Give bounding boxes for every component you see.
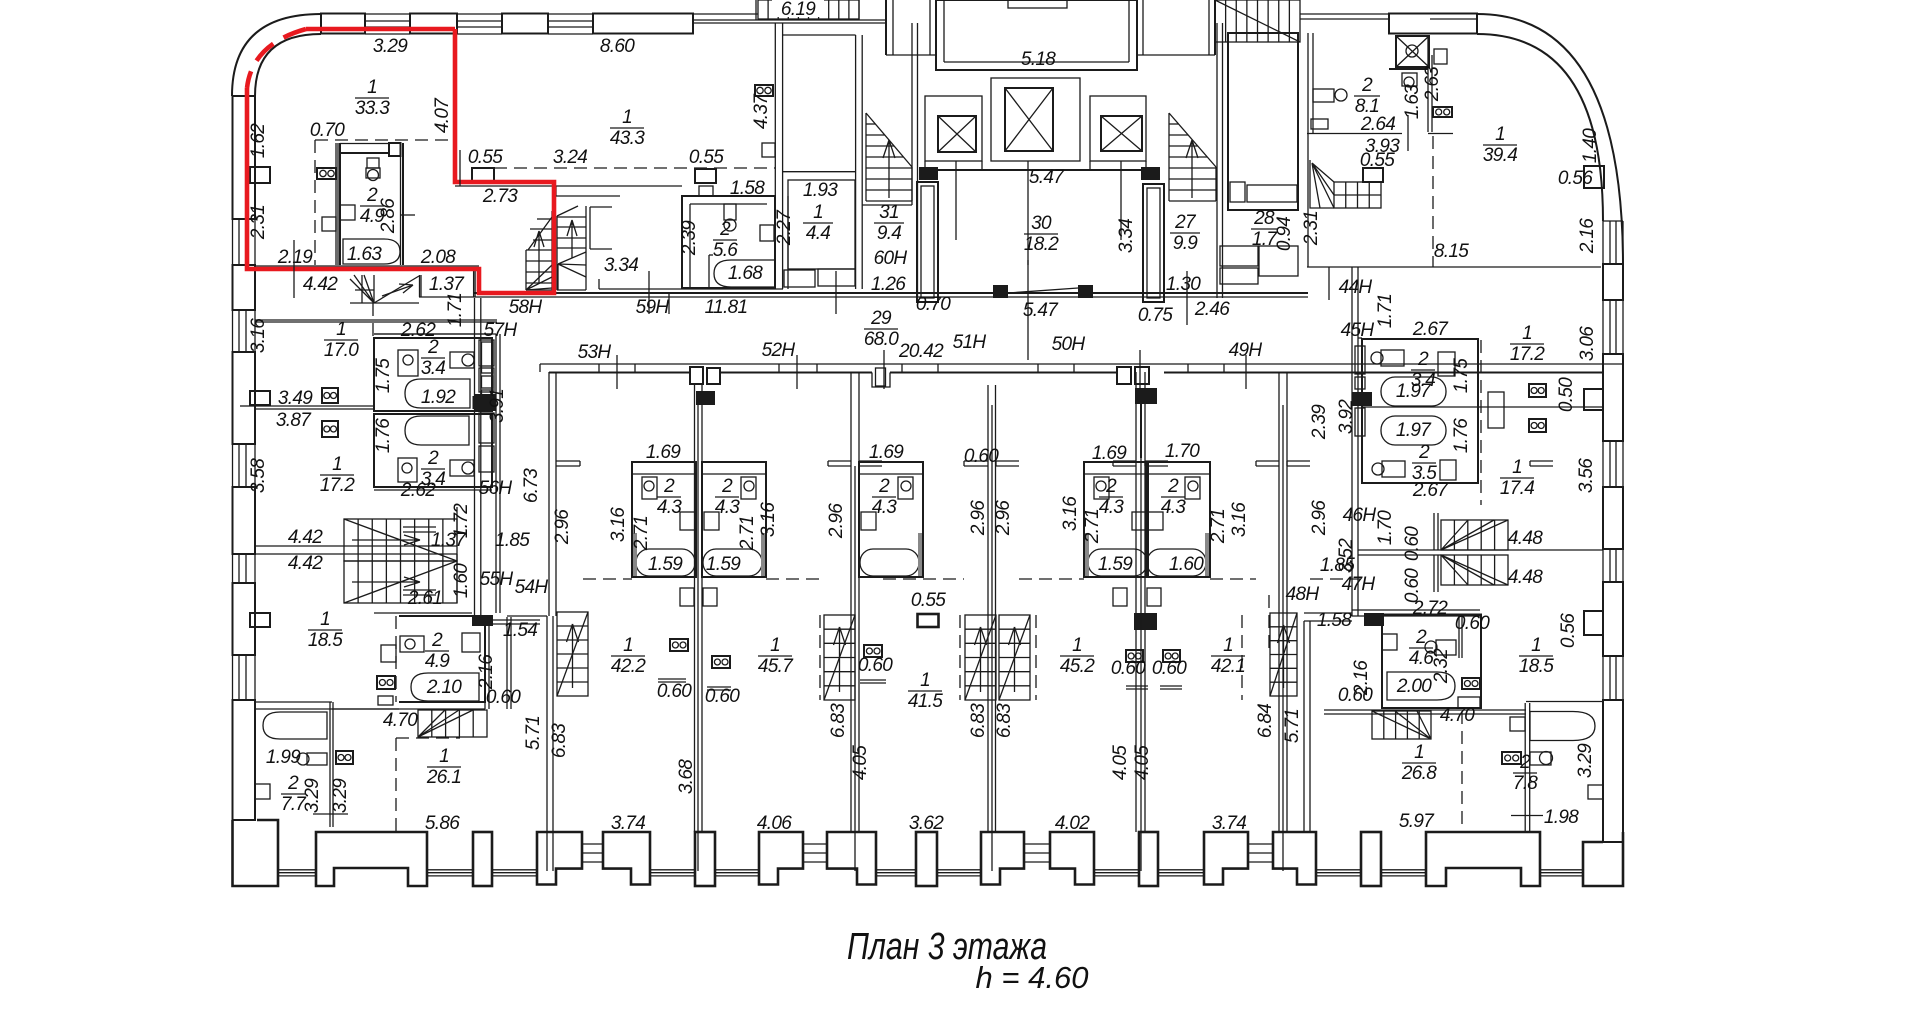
bottom square pier (1361, 832, 1381, 886)
svg-text:3.34: 3.34 (1116, 219, 1137, 253)
bath 7.7 wc (307, 753, 327, 765)
bottom pilaster pair with steps (981, 832, 1024, 885)
stove pairs mid (670, 639, 688, 651)
svg-text:3.58: 3.58 (248, 458, 269, 493)
pod 3.4 lower walls (374, 414, 492, 487)
svg-text:1: 1 (320, 609, 330, 630)
top wall thin section right (1300, 13, 1390, 15)
svg-text:42.1: 42.1 (1211, 656, 1245, 677)
left wall pier (233, 487, 256, 554)
svg-text:48H: 48H (1286, 584, 1320, 605)
top wall thin section (693, 13, 758, 15)
svg-text:0.60: 0.60 (1338, 685, 1373, 706)
stair unit 42.2 (557, 612, 588, 696)
wall 39.4 south (1307, 266, 1601, 268)
svg-text:0.70: 0.70 (916, 294, 951, 315)
outer wall top-right arc (1477, 14, 1623, 266)
red dashed arc (247, 29, 306, 88)
svg-text:0.55: 0.55 (911, 590, 946, 611)
svg-text:6.84: 6.84 (1255, 704, 1276, 738)
left core stair treads (866, 113, 912, 201)
room label 1/26.1 (426, 746, 461, 788)
svg-text:3.74: 3.74 (611, 813, 645, 834)
wall stubs 2.96 row (556, 460, 580, 462)
bottom square pier (916, 832, 937, 886)
bottom pilaster (portico) (316, 832, 427, 886)
sink upper right block (1438, 352, 1455, 376)
top wall pier (321, 14, 365, 34)
right wall pier (1603, 354, 1623, 441)
right block west wall (1351, 298, 1353, 616)
svg-text:1.70: 1.70 (1375, 510, 1396, 545)
svg-text:3.29: 3.29 (330, 778, 351, 813)
svg-text:53H: 53H (578, 342, 612, 363)
svg-text:3.29: 3.29 (302, 778, 323, 813)
interior wall 18.5/bath (255, 701, 332, 703)
svg-text:1.37: 1.37 (431, 530, 467, 551)
room label 1/43.3 (610, 107, 645, 149)
left wall bump box (250, 613, 270, 627)
left wall window (232, 444, 234, 487)
svg-text:2: 2 (427, 448, 439, 469)
svg-text:2.96: 2.96 (826, 503, 847, 539)
room label 28/1.7 (1251, 208, 1278, 250)
svg-text:1.75: 1.75 (1451, 358, 1472, 393)
svg-text:1.30: 1.30 (1166, 274, 1201, 295)
unit wall x1141 (1135, 372, 1137, 832)
right lower apartment pod 4.6 (1382, 615, 1481, 709)
svg-text:1.76: 1.76 (373, 418, 394, 453)
svg-text:1.63: 1.63 (1402, 84, 1423, 119)
winder stair 39.4 area (1310, 160, 1381, 208)
svg-text:5.86: 5.86 (425, 813, 460, 834)
stair rail bracket 58H (590, 206, 612, 208)
svg-text:2: 2 (663, 476, 675, 497)
pod 3.4 upper walls (374, 338, 492, 411)
svg-text:2.63: 2.63 (1422, 66, 1443, 102)
dim leader 5.47 bottom (1027, 260, 1029, 330)
svg-text:1.63: 1.63 (347, 244, 382, 265)
svg-text:4.42: 4.42 (303, 274, 338, 295)
svg-text:2: 2 (1361, 75, 1373, 96)
left wall pier (233, 352, 256, 444)
right wall window (1602, 549, 1604, 582)
svg-text:0.56: 0.56 (1558, 613, 1579, 648)
svg-text:3.34: 3.34 (604, 255, 638, 276)
svg-text:59H: 59H (636, 297, 670, 318)
svg-text:33.3: 33.3 (355, 98, 390, 119)
room label 1/39.4 (1483, 124, 1517, 166)
svg-text:3.16: 3.16 (758, 502, 779, 537)
svg-text:2.62: 2.62 (400, 480, 436, 501)
alcove 1.37 walls (419, 275, 421, 297)
svg-text:1: 1 (1531, 635, 1541, 656)
svg-text:3.92: 3.92 (1336, 399, 1357, 434)
top wall pier right (1389, 14, 1477, 34)
svg-text:52H: 52H (762, 340, 796, 361)
tub 2.00 (1387, 672, 1455, 700)
wc upper right block (1381, 350, 1404, 366)
svg-text:1.76: 1.76 (1451, 418, 1472, 453)
svg-text:1.75: 1.75 (373, 358, 394, 393)
svg-text:44H: 44H (1339, 277, 1373, 298)
svg-text:2.16: 2.16 (476, 654, 497, 690)
svg-text:1.40: 1.40 (1580, 128, 1601, 163)
wall right block y338 (1358, 337, 1362, 339)
svg-text:2.67: 2.67 (1412, 319, 1449, 340)
svg-text:3.06: 3.06 (1577, 326, 1598, 361)
corridor west wall x474 (474, 298, 476, 616)
left core stair walls (855, 171, 857, 289)
svg-text:6.19: 6.19 (781, 0, 816, 20)
left wall window (232, 219, 234, 265)
right wall window (1602, 656, 1604, 700)
room label 1/4.4 (803, 202, 833, 244)
stove 33.3 (317, 168, 336, 179)
svg-text:4.3: 4.3 (1161, 497, 1186, 518)
svg-text:1: 1 (770, 635, 780, 656)
svg-text:0.60: 0.60 (964, 446, 999, 467)
stair rails 46H (1433, 513, 1435, 550)
right wall long pier (1603, 700, 1623, 842)
svg-text:18.2: 18.2 (1024, 234, 1059, 255)
svg-text:51H: 51H (953, 332, 987, 353)
svg-text:4.05: 4.05 (850, 745, 871, 780)
svg-text:0.60: 0.60 (657, 681, 692, 702)
svg-text:6.83: 6.83 (549, 723, 570, 758)
dashed wall 3.24 (494, 167, 775, 169)
wc lower right block (1382, 461, 1405, 477)
svg-text:0.60: 0.60 (1111, 658, 1146, 679)
tub 1.92 (405, 379, 470, 408)
left wall bump box (250, 167, 270, 183)
svg-text:2.32: 2.32 (1431, 648, 1452, 684)
black box at wall 1141 lower (1134, 613, 1157, 630)
stair flight left duplex 33.3 (526, 211, 552, 290)
room label 2/3.4 (421, 337, 445, 379)
svg-text:4.06: 4.06 (757, 813, 792, 834)
sinks below mid walls (680, 588, 694, 606)
left wall bump box (250, 391, 270, 405)
svg-text:2: 2 (1167, 476, 1179, 497)
entrance steps (1248, 843, 1273, 845)
wall x507 (506, 617, 508, 709)
svg-text:1: 1 (367, 77, 377, 98)
svg-text:45.7: 45.7 (758, 656, 794, 677)
wall 47H y616 (1352, 609, 1480, 611)
wall x1428 (1427, 36, 1429, 132)
svg-text:6.73: 6.73 (521, 468, 542, 503)
svg-text:17.2: 17.2 (1510, 344, 1545, 365)
left wall pier (233, 583, 256, 655)
svg-text:2.86: 2.86 (378, 198, 399, 234)
svg-text:3.4: 3.4 (421, 358, 445, 379)
elevator hall (936, 0, 1137, 70)
wall x330 (329, 702, 331, 827)
svg-text:2: 2 (878, 476, 890, 497)
svg-text:0.50: 0.50 (1556, 377, 1577, 412)
left wall window (232, 656, 234, 700)
bottom square pier (695, 832, 715, 886)
unit pod 1.59 (1146, 462, 1210, 577)
svg-text:1: 1 (336, 319, 346, 340)
elevator 2 center (991, 78, 1080, 161)
svg-text:3.29: 3.29 (1575, 743, 1596, 778)
tub 1.97 lower (1381, 416, 1446, 445)
bottom square pier (473, 832, 492, 886)
svg-text:0.60: 0.60 (1402, 526, 1423, 561)
svg-text:39.4: 39.4 (1483, 145, 1517, 166)
top stair block 6.19 (758, 0, 859, 20)
svg-text:2.71: 2.71 (1082, 509, 1103, 544)
bath 7.8 walls (1524, 703, 1526, 831)
svg-text:43.3: 43.3 (610, 128, 645, 149)
wall at 56H (456, 507, 458, 546)
left wall pier (233, 96, 256, 219)
svg-text:18.5: 18.5 (1519, 656, 1554, 677)
svg-text:2.62: 2.62 (400, 320, 436, 341)
room label 1/42.1 (1211, 635, 1245, 677)
svg-text:1.62: 1.62 (248, 123, 269, 158)
svg-text:4.02: 4.02 (1055, 813, 1090, 834)
stair right rails (403, 527, 436, 595)
wall over pods (374, 333, 492, 335)
right wall pier (1603, 582, 1623, 656)
svg-text:4.48: 4.48 (1508, 567, 1543, 588)
unit wall x856 (850, 372, 852, 832)
svg-text:1.98: 1.98 (1544, 807, 1579, 828)
right core closet 28 (1228, 33, 1298, 210)
wall 46H (1358, 549, 1441, 551)
left wall window (232, 310, 234, 352)
svg-text:2: 2 (721, 476, 733, 497)
vent box 0.55 left (472, 168, 494, 183)
svg-text:4.70: 4.70 (1440, 705, 1475, 726)
svg-text:5.71: 5.71 (523, 716, 544, 750)
top wall pier (593, 14, 693, 34)
svg-text:3.16: 3.16 (608, 507, 629, 542)
svg-text:5.47: 5.47 (1023, 300, 1059, 321)
svg-text:0.70: 0.70 (310, 120, 345, 141)
tub 1.98 bath 7.8 (1530, 712, 1595, 741)
bottom wall connecting lines (278, 869, 316, 871)
right tall shaft 0.75 (1143, 184, 1164, 302)
dashed boxes around stairs (819, 615, 821, 700)
elevator doors (955, 161, 957, 170)
svg-text:6.83: 6.83 (994, 703, 1015, 738)
red highlight apartment outline (247, 29, 554, 293)
svg-text:6.83: 6.83 (828, 703, 849, 738)
right wall window (1602, 300, 1604, 354)
svg-text:3.68: 3.68 (676, 759, 697, 794)
stair unit 42.1 (1270, 613, 1297, 696)
dashed loft line across units (583, 578, 632, 580)
svg-text:17.4: 17.4 (1500, 478, 1534, 499)
tub 1.97 upper (1381, 377, 1446, 406)
tub 1.63 (343, 239, 400, 264)
wall under pods (374, 486, 492, 488)
svg-text:1.59: 1.59 (1098, 554, 1133, 575)
svg-text:2: 2 (1415, 627, 1427, 648)
svg-text:45.2: 45.2 (1060, 656, 1095, 677)
room label 2/7.8 (1513, 752, 1538, 794)
entrance steps (1024, 843, 1050, 845)
bottom pilaster pair with steps (537, 832, 582, 885)
room label 1/17.2 (320, 454, 355, 496)
svg-text:2.19: 2.19 (277, 247, 313, 268)
stove on 43.3 wall (755, 85, 773, 96)
corridor east wall x496 (495, 334, 497, 613)
fixtures left of pod (381, 645, 396, 662)
room label 2/7.7 (281, 773, 307, 815)
stove 26.1 left (336, 751, 353, 764)
dim line 1.98 (1511, 815, 1543, 817)
svg-text:1: 1 (920, 670, 930, 691)
svg-text:h = 4.60: h = 4.60 (976, 960, 1089, 995)
48H corridor walls (1304, 612, 1352, 614)
svg-text:2: 2 (287, 773, 299, 794)
svg-text:2: 2 (1105, 476, 1117, 497)
top wall pier (410, 14, 457, 34)
svg-text:1.99: 1.99 (266, 747, 301, 768)
svg-text:0.94: 0.94 (1274, 217, 1295, 251)
svg-text:1: 1 (439, 746, 449, 767)
room label 27/9.9 (1170, 212, 1200, 254)
svg-text:29: 29 (870, 308, 892, 329)
svg-text:0.60: 0.60 (705, 686, 740, 707)
room label 2/3.5 (1412, 442, 1437, 484)
svg-text:1.26: 1.26 (871, 274, 906, 295)
mid wall 17.2/17.4 right (1478, 406, 1603, 408)
svg-text:2.64: 2.64 (1360, 114, 1395, 135)
unit top boxes at x1141 (1117, 367, 1131, 384)
room label 1/45.7 (758, 635, 794, 677)
sink right of wall (1434, 49, 1447, 64)
svg-text:1.59: 1.59 (648, 554, 683, 575)
room label 2/4.3 (872, 476, 897, 518)
wall y702-709 left unit (255, 708, 399, 710)
svg-text:1.37: 1.37 (429, 274, 465, 295)
room 8.1 walls (1307, 33, 1309, 267)
dashed vertical 26.8 (1461, 711, 1463, 831)
svg-text:2.96: 2.96 (1309, 500, 1330, 536)
svg-text:28: 28 (1253, 208, 1275, 229)
svg-text:3.91: 3.91 (487, 389, 508, 423)
right core stair treads (1169, 113, 1216, 201)
top stair block right (1215, 0, 1300, 42)
room label 29/68.0 (864, 308, 899, 350)
svg-text:4.3: 4.3 (715, 497, 740, 518)
svg-text:4.3: 4.3 (872, 497, 897, 518)
room label 2/8.1 (1354, 75, 1380, 117)
unit row top wall (540, 363, 1623, 365)
wall under pod 4.6 (1324, 709, 1526, 711)
svg-text:2.71: 2.71 (1208, 509, 1229, 544)
tub 2.10 (411, 673, 479, 701)
sink below shower (1402, 73, 1417, 86)
svg-text:1: 1 (623, 635, 633, 656)
bottom pilaster pair with steps (759, 832, 803, 885)
wc in 5.6 (724, 204, 736, 220)
svg-text:3.16: 3.16 (248, 318, 269, 353)
kitchen 39.4 dashes (1432, 136, 1434, 267)
wall top of pod area (374, 612, 472, 614)
right core stair walls (1216, 23, 1218, 205)
svg-text:0.60: 0.60 (1455, 613, 1490, 634)
tub lower (405, 416, 469, 445)
svg-text:17.0: 17.0 (324, 340, 359, 361)
svg-text:1.60: 1.60 (451, 563, 472, 598)
svg-text:5.47: 5.47 (1029, 167, 1065, 188)
svg-text:2.46: 2.46 (1194, 299, 1230, 320)
left wall window (232, 555, 234, 583)
stair flight 58H (557, 206, 586, 290)
svg-text:7.8: 7.8 (1513, 773, 1538, 794)
svg-text:1.92: 1.92 (421, 387, 456, 408)
svg-text:2.73: 2.73 (482, 186, 518, 207)
unit wall x988 (987, 385, 989, 832)
corridor top wall with black ends (937, 169, 1141, 171)
elevator leader lines (955, 170, 957, 240)
room label 1/42.2 (611, 635, 646, 677)
south wall of 58H block (598, 279, 600, 289)
wc 4.9 (367, 158, 379, 168)
shaft walls right of elevator hall (1136, 0, 1138, 55)
unit wall 26.1/42.2 (546, 616, 548, 871)
pod threshold (1458, 697, 1480, 708)
room label 1/41.5 (908, 670, 943, 712)
svg-text:46H: 46H (1343, 505, 1377, 526)
room label 2/4.3 (1099, 476, 1124, 518)
sink 33.3 (322, 217, 336, 231)
vent rect 0.55 unit 41.5 (918, 614, 939, 627)
svg-text:9.9: 9.9 (1173, 233, 1198, 254)
unit top boxes 0.55 between 42.2/45.7 (690, 367, 703, 384)
svg-text:2.31: 2.31 (248, 205, 269, 240)
room label 1/45.2 (1060, 635, 1095, 677)
room label 1/18.5 (1519, 635, 1554, 677)
right wall inner bump box mid (1584, 389, 1603, 410)
top wall pier (502, 14, 548, 34)
svg-text:1.70: 1.70 (1165, 441, 1200, 462)
unit wall x549 (548, 372, 550, 616)
svg-text:1.93: 1.93 (803, 180, 838, 201)
wall under hall 60H (862, 204, 912, 206)
dim tick 2.64 (1407, 115, 1409, 151)
room label 2/4.3 (1161, 476, 1186, 518)
svg-text:4.05: 4.05 (1110, 745, 1131, 780)
svg-text:0.60: 0.60 (1152, 658, 1187, 679)
svg-text:1.58: 1.58 (1317, 610, 1352, 631)
room label 2/4.3 (657, 476, 682, 518)
svg-text:11.81: 11.81 (705, 297, 748, 318)
svg-text:3.74: 3.74 (1212, 813, 1246, 834)
right block pod walls upper (1362, 339, 1478, 483)
tub 1.68 (714, 260, 775, 287)
sink 7.8 right (1588, 785, 1603, 799)
svg-text:0.60: 0.60 (486, 687, 521, 708)
svg-text:0.60: 0.60 (858, 655, 893, 676)
svg-text:55H: 55H (480, 569, 514, 590)
svg-text:18.5: 18.5 (308, 630, 343, 651)
svg-text:1.60: 1.60 (1169, 554, 1204, 575)
svg-text:2.16: 2.16 (1577, 218, 1598, 254)
outer wall top-left arc (232, 14, 321, 96)
svg-text:2: 2 (1519, 752, 1531, 773)
svg-text:2.96: 2.96 (993, 500, 1014, 536)
svg-text:4.07: 4.07 (432, 97, 453, 133)
room label 1/33.3 (355, 77, 390, 119)
